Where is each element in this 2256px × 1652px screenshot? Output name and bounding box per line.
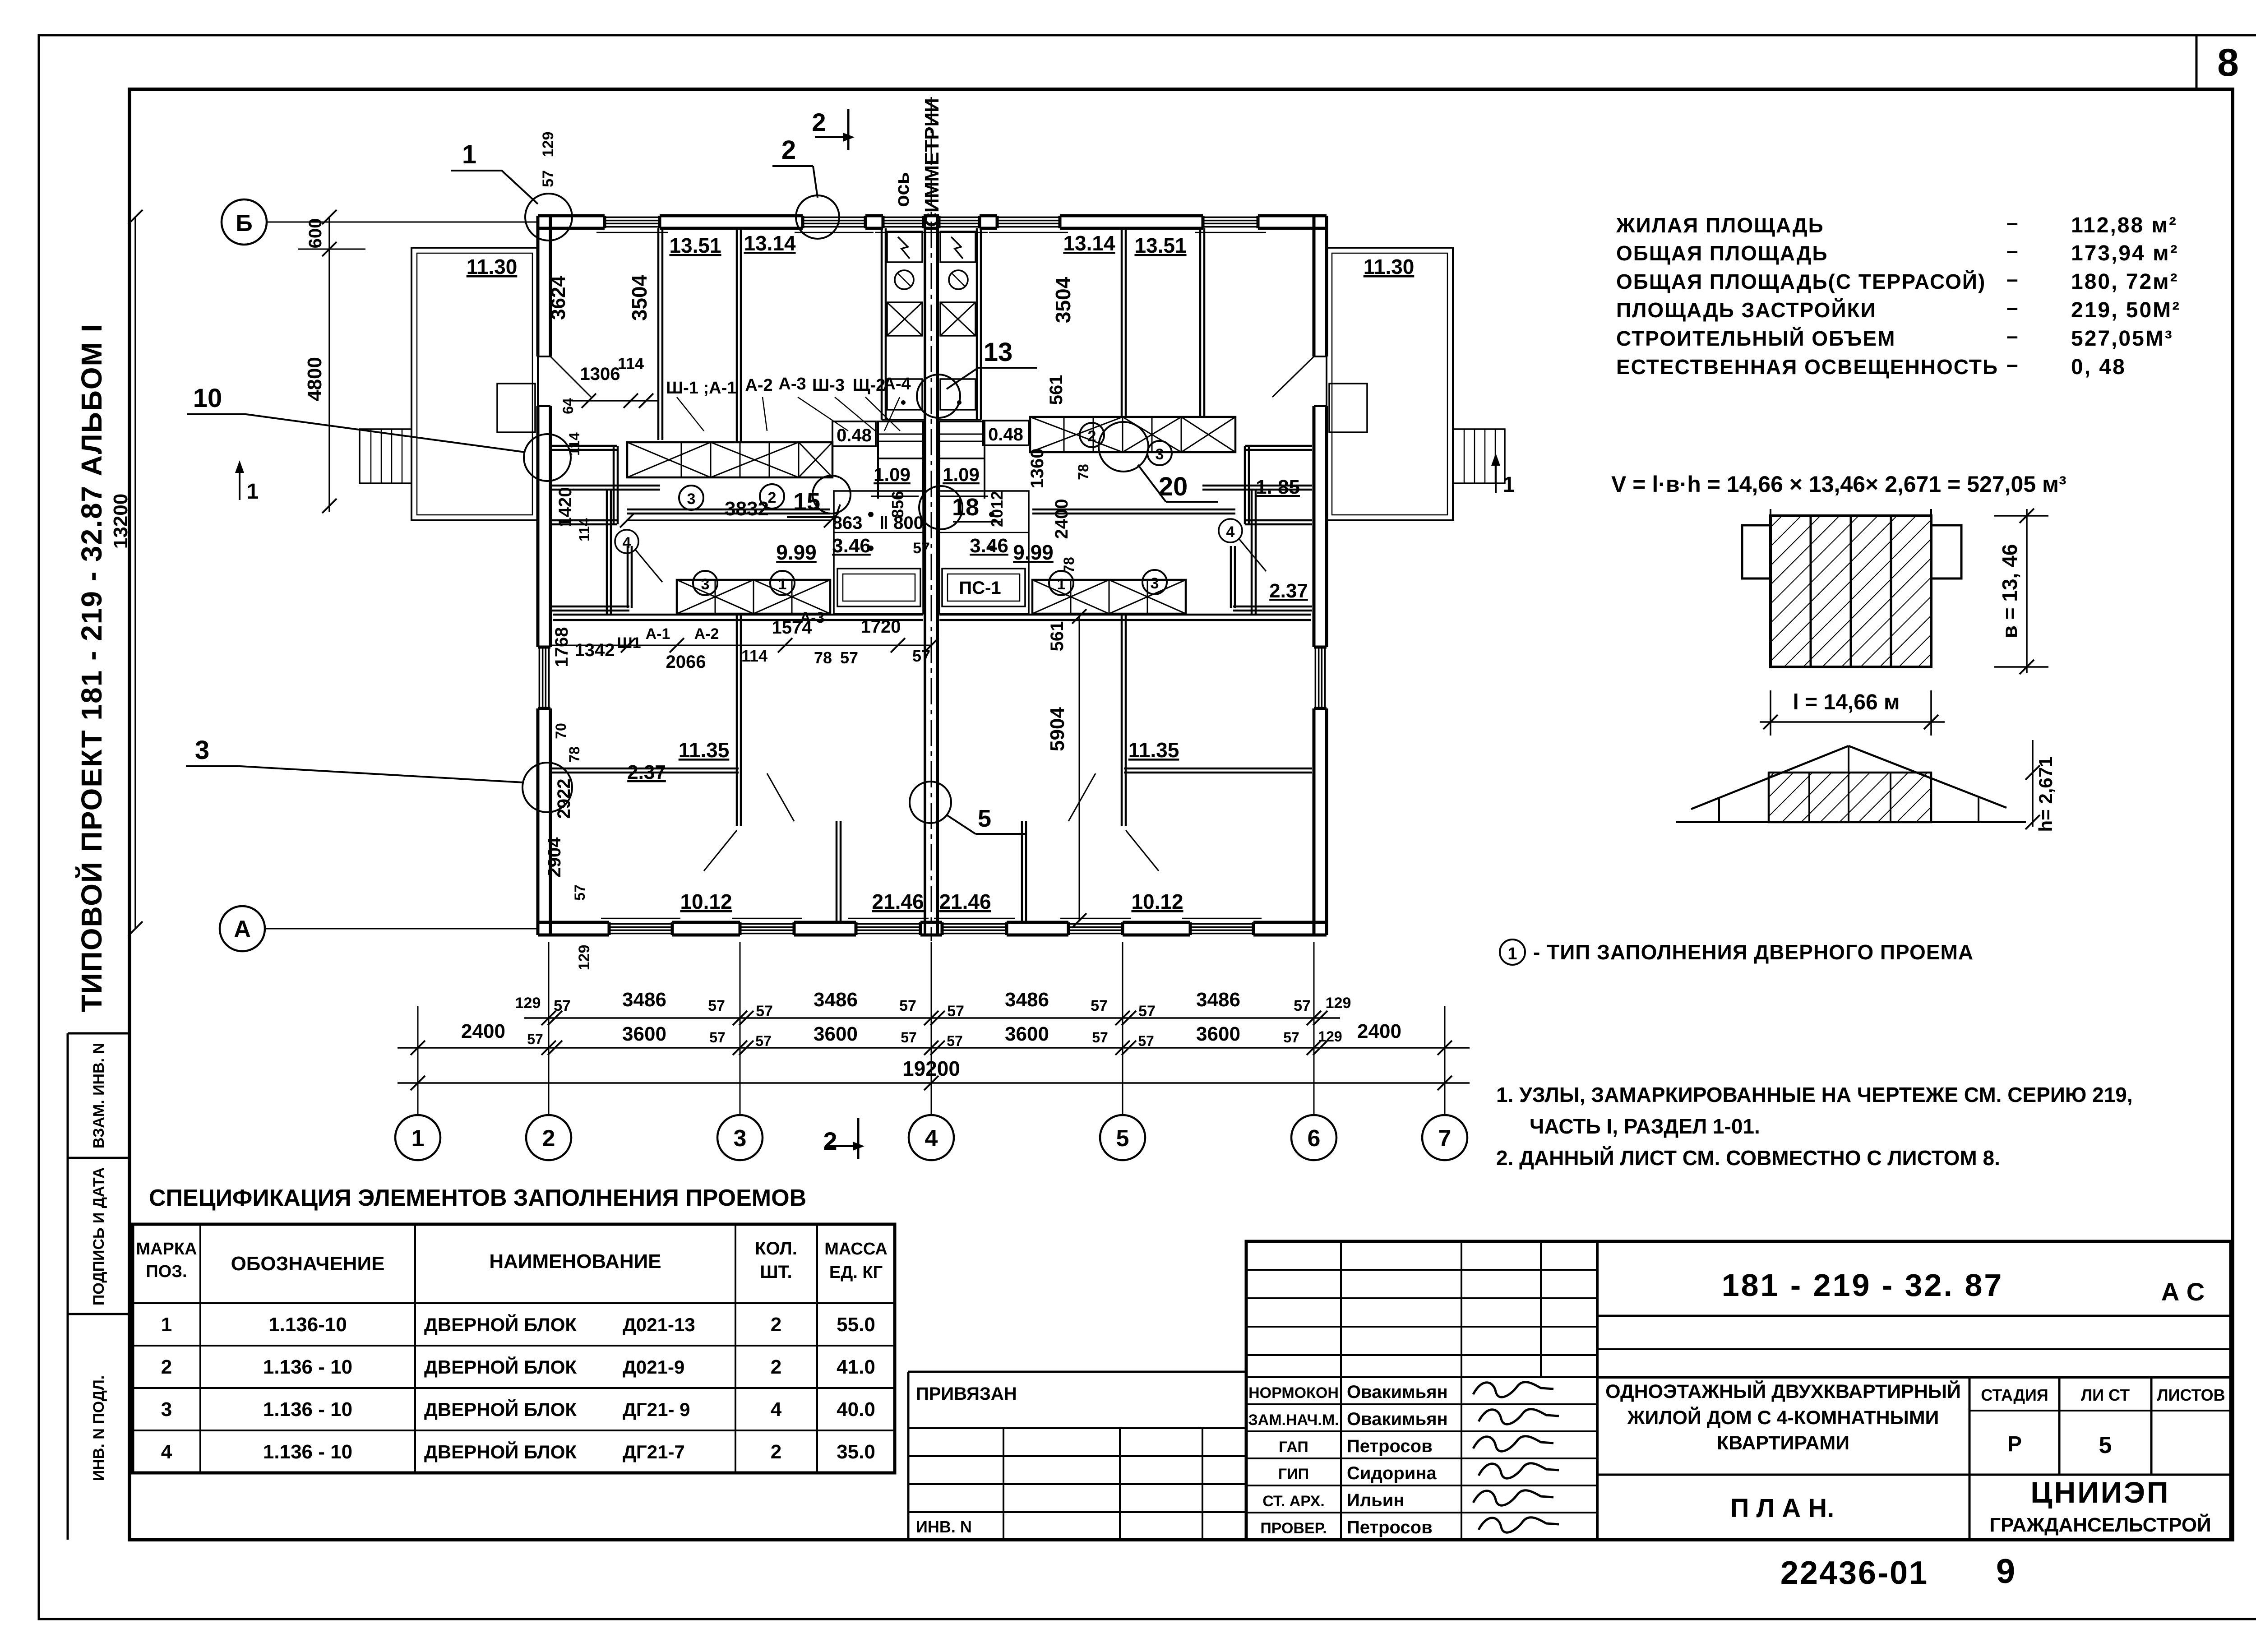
svg-text:0.48: 0.48	[837, 426, 872, 445]
svg-text:3486: 3486	[814, 989, 858, 1011]
title block upper mini grid	[1246, 1269, 1597, 1271]
svg-text:ПОЗ.: ПОЗ.	[146, 1262, 187, 1281]
svg-text:А-2: А-2	[745, 376, 772, 395]
svg-text:ЛИСТОВ: ЛИСТОВ	[2157, 1386, 2225, 1404]
right terrace entrance stair	[1453, 429, 1505, 483]
svg-text:4: 4	[1226, 523, 1235, 541]
svg-text:2: 2	[542, 1125, 555, 1152]
svg-text:57: 57	[840, 648, 858, 667]
svg-text:1.09: 1.09	[874, 464, 911, 485]
svg-text:2: 2	[771, 1314, 781, 1336]
toilet dots right	[989, 512, 994, 517]
svg-text:219, 50М²: 219, 50М²	[2071, 298, 2181, 322]
axis A line	[265, 928, 538, 930]
title block verticals left part	[1596, 1241, 1599, 1540]
party wall on symmetry axis	[924, 216, 926, 935]
svg-text:ЧАСТЬ I, РАЗДЕЛ 1-01.: ЧАСТЬ I, РАЗДЕЛ 1-01.	[1530, 1115, 1760, 1138]
svg-text:l = 14,66 м: l = 14,66 м	[1793, 690, 1900, 714]
stage columns	[1969, 1377, 1971, 1540]
svg-text:ПРИВЯЗАН: ПРИВЯЗАН	[916, 1384, 1017, 1404]
dimension 3832	[627, 519, 831, 521]
bottom exterior wall	[538, 921, 1327, 924]
svg-text:1: 1	[1507, 944, 1517, 963]
top exterior wall	[538, 214, 1327, 217]
svg-text:СТАДИЯ: СТАДИЯ	[1981, 1386, 2048, 1404]
svg-text:ШТ.: ШТ.	[760, 1262, 792, 1282]
detail circle 5 bottom party wall	[910, 782, 951, 823]
svg-text:57: 57	[708, 997, 725, 1014]
lower-right room wall vertical	[1121, 614, 1123, 826]
svg-text:129: 129	[515, 995, 541, 1012]
svg-text:ОДНОЭТАЖНЫЙ ДВУХКВАРТИРНЫЙ: ОДНОЭТАЖНЫЙ ДВУХКВАРТИРНЫЙ	[1605, 1380, 1961, 1402]
svg-text:П Л А Н.: П Л А Н.	[1730, 1494, 1835, 1523]
kitchen core left	[881, 228, 883, 420]
title block horizontal right part	[1597, 1315, 2231, 1317]
svg-text:1: 1	[462, 140, 476, 169]
svg-text:–: –	[2006, 296, 2018, 319]
svg-text:2066: 2066	[666, 652, 706, 672]
signatures	[1473, 1382, 1553, 1397]
svg-text:3: 3	[1156, 446, 1164, 463]
svg-text:57: 57	[756, 1003, 773, 1020]
svg-text:Б: Б	[236, 210, 252, 236]
svg-text:ЦНИИЭП: ЦНИИЭП	[2030, 1476, 2170, 1509]
svg-text:1: 1	[778, 576, 787, 593]
svg-text:4: 4	[925, 1125, 938, 1152]
hatched plan diagram	[1771, 516, 1931, 667]
svg-text:3: 3	[195, 736, 209, 765]
svg-text:57: 57	[1294, 997, 1311, 1014]
svg-text:3600: 3600	[1005, 1023, 1049, 1045]
svg-text:2: 2	[161, 1356, 172, 1378]
svg-text:2012: 2012	[988, 491, 1006, 527]
sink circle left	[895, 270, 914, 289]
svg-text:2: 2	[1088, 428, 1096, 445]
dimension chain row 2	[398, 1047, 1470, 1049]
lower closet band right	[1032, 580, 1186, 614]
partition wall small right room	[1251, 490, 1253, 614]
svg-text:0, 48: 0, 48	[2071, 355, 2126, 379]
closet near detail 4 left	[627, 546, 629, 608]
left wall door opening	[536, 356, 552, 406]
svg-text:1342: 1342	[575, 640, 615, 660]
svg-text:Овакимьян: Овакимьян	[1347, 1409, 1448, 1429]
svg-text:1360: 1360	[1027, 449, 1047, 489]
axis B line	[267, 222, 538, 223]
right terrace door landing	[1329, 384, 1367, 432]
svg-text:129: 129	[576, 945, 593, 971]
svg-text:1. 85: 1. 85	[1256, 476, 1300, 498]
svg-text:ТИПОВОЙ ПРОЕКТ 181 - 219 - 32.: ТИПОВОЙ ПРОЕКТ 181 - 219 - 32.87 АЛЬБОМ …	[75, 324, 108, 1013]
svg-text:600: 600	[305, 218, 325, 249]
svg-text:2.37: 2.37	[1269, 580, 1308, 602]
vent square right	[940, 302, 975, 336]
svg-text:1768: 1768	[552, 627, 572, 667]
svg-text:2: 2	[771, 1441, 781, 1463]
svg-text:57: 57	[912, 647, 930, 665]
axis circles 1-7	[395, 1115, 440, 1160]
shelf cell 1.09 left	[878, 421, 923, 458]
roof elevation diagram	[1676, 821, 2026, 823]
svg-text:3.46: 3.46	[832, 535, 871, 557]
sheet number box top-right	[2196, 35, 2198, 89]
svg-text:41.0: 41.0	[837, 1356, 875, 1378]
svg-text:Д021-13: Д021-13	[623, 1314, 695, 1335]
corridor bottom wall left	[553, 614, 923, 616]
svg-text:10.12: 10.12	[680, 890, 732, 913]
svg-text:3504: 3504	[1051, 277, 1075, 323]
svg-text:ГИП: ГИП	[1278, 1466, 1309, 1483]
svg-text:173,94 м²: 173,94 м²	[2071, 241, 2179, 265]
svg-text:57: 57	[947, 1033, 963, 1049]
svg-text:78: 78	[1061, 557, 1077, 573]
svg-text:13.14: 13.14	[744, 231, 796, 255]
svg-text:129: 129	[1326, 995, 1351, 1012]
dimension 600 and 4800	[328, 217, 330, 512]
svg-text:114: 114	[741, 647, 767, 665]
band circles right	[1080, 423, 1104, 447]
circle 4 right	[1219, 519, 1242, 542]
svg-text:ДВЕРНОЙ БЛОК: ДВЕРНОЙ БЛОК	[424, 1356, 577, 1378]
detail circle 15	[813, 476, 851, 514]
svg-text:ПЛОЩАДЬ ЗАСТРОЙКИ: ПЛОЩАДЬ ЗАСТРОЙКИ	[1616, 298, 1877, 322]
left loggia niche	[550, 445, 617, 447]
section mark 1 right	[1495, 461, 1497, 493]
svg-text:3600: 3600	[622, 1023, 666, 1045]
svg-text:114: 114	[566, 432, 582, 456]
dimension b=13,46	[2026, 509, 2028, 673]
svg-text:ИНВ. N ПОДЛ.: ИНВ. N ПОДЛ.	[90, 1375, 107, 1481]
lower-right room wall horizontal	[1124, 768, 1312, 770]
bottom wall windows	[609, 921, 672, 937]
svg-text:13: 13	[984, 338, 1013, 367]
bathtub left	[837, 569, 920, 606]
lower-left room wall horizontal	[550, 768, 739, 770]
svg-text:ГАП: ГАП	[1279, 1439, 1308, 1456]
partition wall between rooms 13.51 and 13.14	[736, 228, 738, 441]
svg-text:4: 4	[161, 1441, 172, 1463]
right wall window	[1312, 647, 1328, 708]
svg-text:ДВЕРНОЙ БЛОК: ДВЕРНОЙ БЛОК	[424, 1398, 577, 1420]
sink unit PS-1 right	[942, 569, 1025, 606]
closet near detail 4 right	[1230, 546, 1232, 608]
lower-left room wall vertical	[736, 614, 738, 826]
svg-text:ВЗАМ. ИНВ. N: ВЗАМ. ИНВ. N	[90, 1043, 107, 1148]
svg-text:2. ДАННЫЙ ЛИСТ СМ. СОВМЕСТНО: 2. ДАННЫЙ ЛИСТ СМ. СОВМЕСТНО С ЛИСТОМ 8.	[1496, 1146, 2000, 1170]
svg-text:78: 78	[1075, 464, 1091, 480]
svg-text:13.14: 13.14	[1063, 231, 1115, 255]
svg-text:11.35: 11.35	[679, 738, 730, 762]
kitchen sink right	[940, 379, 975, 410]
svg-text:Петросов: Петросов	[1347, 1436, 1433, 1456]
upper closet band right	[1030, 417, 1235, 452]
left exterior wall	[536, 216, 540, 935]
svg-text:3: 3	[687, 491, 696, 508]
svg-text:‖ 800: ‖ 800	[879, 513, 924, 533]
svg-text:3600: 3600	[1196, 1023, 1240, 1045]
partition wall under right strip room	[1202, 485, 1312, 487]
svg-text:Р: Р	[2007, 1432, 2022, 1456]
svg-text:1.09: 1.09	[943, 464, 980, 485]
detail circle 20	[1099, 422, 1148, 472]
svg-text:3: 3	[734, 1125, 747, 1152]
svg-text:1420: 1420	[555, 487, 575, 528]
door swing lines lower rooms	[767, 773, 794, 821]
svg-text:КОЛ.: КОЛ.	[755, 1239, 797, 1259]
svg-text:57: 57	[540, 170, 557, 187]
svg-text:ДГ21-7: ДГ21-7	[623, 1441, 685, 1462]
partition wall right strip	[1199, 228, 1202, 416]
svg-text:Сидорина: Сидорина	[1347, 1463, 1437, 1483]
svg-text:5: 5	[1116, 1125, 1129, 1152]
svg-text:V = l·в·h = 14,66 × 13,46× 2,6: V = l·в·h = 14,66 × 13,46× 2,671 = 527,0…	[1611, 472, 2066, 497]
detail circle 3 left wall	[522, 763, 572, 812]
svg-text:13.51: 13.51	[669, 234, 721, 257]
svg-text:4: 4	[623, 534, 631, 551]
dimension h=2,671	[2032, 740, 2034, 827]
svg-text:1: 1	[161, 1314, 172, 1336]
bottom middle wall left	[836, 821, 838, 922]
svg-text:МАРКА: МАРКА	[136, 1240, 197, 1259]
svg-text:21.46: 21.46	[939, 890, 991, 913]
left frame attribute column	[67, 1033, 69, 1540]
left wing of plan diagram	[1742, 525, 1771, 578]
svg-text:А-1: А-1	[646, 625, 670, 643]
svg-text:1.136 - 10: 1.136 - 10	[263, 1441, 352, 1463]
axis B circle	[222, 199, 267, 245]
svg-text:h= 2,671: h= 2,671	[2035, 757, 2056, 832]
detail circle 1 top-left corner	[525, 194, 572, 241]
svg-text:1.136 - 10: 1.136 - 10	[263, 1398, 352, 1421]
bath walls left	[834, 491, 923, 614]
svg-text:Овакимьян: Овакимьян	[1347, 1382, 1448, 1402]
axis A circle	[220, 906, 265, 951]
svg-text:57: 57	[899, 997, 916, 1014]
svg-text:–: –	[2006, 267, 2018, 291]
svg-text:1. УЗЛЫ, ЗАМАРКИРОВАННЫЕ НА: 1. УЗЛЫ, ЗАМАРКИРОВАННЫЕ НА ЧЕРТЕЖЕ СМ. …	[1496, 1083, 2133, 1106]
svg-text:А: А	[234, 916, 251, 942]
left wall window	[536, 647, 552, 708]
svg-text:А-3: А-3	[800, 609, 825, 626]
svg-text:1306: 1306	[580, 364, 620, 384]
svg-text:3486: 3486	[622, 989, 666, 1011]
svg-text:2400: 2400	[1052, 499, 1072, 539]
partition wall between rooms 13.14 and 13.51 right	[1121, 228, 1123, 416]
shelf cell 1.09 right	[939, 421, 985, 458]
svg-text:13.51: 13.51	[1134, 234, 1186, 257]
svg-text:А-4: А-4	[883, 375, 911, 393]
svg-text:9.99: 9.99	[1013, 541, 1054, 564]
svg-text:3486: 3486	[1005, 989, 1049, 1011]
svg-text:57: 57	[1091, 997, 1108, 1014]
svg-text:57: 57	[901, 1029, 917, 1046]
partition wall small left room	[606, 490, 608, 614]
svg-text:3.46: 3.46	[970, 535, 1008, 557]
svg-text:ОБОЗНАЧЕНИЕ: ОБОЗНАЧЕНИЕ	[231, 1253, 385, 1275]
specification table grid	[133, 1224, 895, 1473]
partition wall under left strip room	[550, 485, 660, 487]
svg-text:35.0: 35.0	[837, 1441, 875, 1463]
svg-text:1: 1	[1503, 473, 1515, 497]
svg-text:40.0: 40.0	[837, 1398, 875, 1421]
svg-text:Ильин: Ильин	[1347, 1490, 1405, 1510]
svg-text:ЛИ СТ: ЛИ СТ	[2081, 1386, 2130, 1404]
svg-text:11.30: 11.30	[1364, 255, 1415, 278]
stove left	[887, 231, 922, 262]
overall height dimension 13200	[134, 217, 136, 929]
svg-text:4: 4	[771, 1398, 782, 1421]
svg-text:ПОДПИСЬ И ДАТА: ПОДПИСЬ И ДАТА	[90, 1167, 107, 1305]
svg-text:13200: 13200	[110, 494, 132, 549]
svg-text:57: 57	[1138, 1003, 1156, 1020]
svg-text:4800: 4800	[304, 357, 326, 401]
svg-text:57: 57	[755, 1033, 772, 1049]
bottom middle wall right	[1021, 821, 1023, 922]
svg-text:2.37: 2.37	[627, 761, 666, 783]
svg-text:2: 2	[768, 489, 777, 506]
svg-text:11.30: 11.30	[467, 255, 518, 278]
svg-text:ДГ21- 9: ДГ21- 9	[623, 1399, 690, 1420]
svg-text:0.48: 0.48	[988, 425, 1023, 444]
svg-text:78: 78	[814, 648, 832, 667]
kitchen core right	[976, 228, 978, 420]
dimension chain row 3 19200	[398, 1082, 1470, 1084]
svg-text:ЕСТЕСТВЕННАЯ ОСВЕЩЕННОСТЬ: ЕСТЕСТВЕННАЯ ОСВЕЩЕННОСТЬ	[1616, 355, 1998, 379]
svg-text:1: 1	[411, 1125, 425, 1152]
svg-text:А-2: А-2	[694, 625, 719, 643]
section mark 1 left	[239, 468, 240, 500]
detail circle 18	[919, 486, 962, 529]
svg-text:5: 5	[978, 805, 991, 832]
svg-text:8: 8	[2217, 41, 2239, 84]
svg-text:57: 57	[1138, 1033, 1154, 1049]
svg-text:2400: 2400	[1357, 1020, 1401, 1042]
svg-text:57: 57	[947, 1003, 964, 1020]
svg-text:Д021-9: Д021-9	[623, 1356, 684, 1378]
svg-text:21.46: 21.46	[872, 890, 924, 913]
right exterior wall	[1313, 216, 1316, 935]
svg-text:ЖИЛАЯ ПЛОЩАДЬ: ЖИЛАЯ ПЛОЩАДЬ	[1616, 213, 1824, 237]
svg-text:СТРОИТЕЛЬНЫЙ ОБЪЕМ: СТРОИТЕЛЬНЫЙ ОБЪЕМ	[1616, 327, 1895, 350]
svg-text:НАИМЕНОВАНИЕ: НАИМЕНОВАНИЕ	[489, 1250, 661, 1273]
title block signatory rows	[1246, 1403, 1597, 1405]
svg-text:2904: 2904	[545, 837, 564, 878]
svg-text:1.136-10: 1.136-10	[268, 1314, 347, 1336]
svg-text:15: 15	[793, 488, 820, 515]
svg-text:57: 57	[709, 1029, 726, 1046]
svg-text:КВАРТИРАМИ: КВАРТИРАМИ	[1717, 1432, 1849, 1454]
svg-text:55.0: 55.0	[837, 1314, 875, 1336]
right wing of plan diagram	[1931, 525, 1961, 578]
axis lines to circles	[417, 1006, 419, 1115]
sink circle right	[949, 270, 968, 289]
svg-text:5904: 5904	[1046, 707, 1068, 751]
svg-text:57: 57	[572, 884, 588, 901]
svg-text:2: 2	[771, 1356, 781, 1378]
left terrace entrance stair	[360, 429, 411, 483]
svg-text:СИММЕТРИИ: СИММЕТРИИ	[921, 98, 943, 227]
door fill type note	[1500, 939, 1525, 965]
svg-text:ОБЩАЯ ПЛОЩАДЬ: ОБЩАЯ ПЛОЩАДЬ	[1616, 241, 1828, 265]
svg-text:1.136 - 10: 1.136 - 10	[263, 1356, 352, 1378]
svg-text:57: 57	[527, 1031, 543, 1047]
lower closet band left	[677, 580, 830, 614]
svg-text:5: 5	[2099, 1432, 2112, 1458]
svg-text:Щ-2: Щ-2	[853, 376, 886, 395]
dimension chain row 1	[524, 1017, 1340, 1019]
svg-text:129: 129	[540, 132, 557, 157]
svg-text:ОБЩАЯ ПЛОЩАДЬ(С ТЕРРАСОЙ): ОБЩАЯ ПЛОЩАДЬ(С ТЕРРАСОЙ)	[1616, 270, 1986, 293]
svg-text:527,05М³: 527,05М³	[2071, 327, 2173, 351]
svg-text:1: 1	[1057, 576, 1066, 593]
svg-text:114: 114	[618, 354, 644, 373]
svg-text:11.35: 11.35	[1128, 738, 1179, 762]
svg-text:Петросов: Петросов	[1347, 1518, 1433, 1537]
svg-text:18: 18	[952, 494, 979, 521]
svg-text:2922: 2922	[554, 779, 574, 819]
svg-text:70: 70	[553, 723, 569, 739]
symmetry axis line	[931, 97, 932, 941]
svg-text:3486: 3486	[1196, 989, 1240, 1011]
lower dim cluster	[550, 645, 931, 646]
corridor wall left	[627, 509, 830, 511]
left terrace	[411, 248, 538, 520]
svg-text:2: 2	[823, 1127, 837, 1155]
svg-text:112,88 м²: 112,88 м²	[2071, 213, 2177, 237]
svg-text:МАССА: МАССА	[824, 1240, 888, 1259]
svg-text:–: –	[2006, 211, 2018, 234]
bath walls right	[939, 491, 1029, 614]
svg-text:3504: 3504	[628, 274, 651, 321]
right wall door opening	[1312, 356, 1328, 406]
corridor bottom wall right	[939, 614, 1311, 616]
svg-text:2: 2	[781, 135, 796, 165]
svg-text:ГРАЖДАНСЕЛЬСТРОЙ: ГРАЖДАНСЕЛЬСТРОЙ	[1989, 1513, 2211, 1536]
dimension l=14,66	[1760, 721, 1945, 723]
svg-text:1: 1	[247, 480, 259, 504]
svg-text:НОРМОКОН: НОРМОКОН	[1248, 1384, 1339, 1402]
right loggia niche 1.85	[1245, 445, 1312, 447]
upper closet band left	[627, 442, 832, 477]
svg-text:3: 3	[701, 576, 710, 593]
toilet dots left	[868, 512, 874, 517]
svg-text:А-3: А-3	[778, 375, 806, 393]
circle 4 left	[615, 530, 638, 553]
svg-text:57: 57	[1092, 1029, 1108, 1046]
svg-text:10.12: 10.12	[1131, 890, 1183, 913]
svg-text:863: 863	[832, 513, 863, 533]
svg-text:в = 13, 46: в = 13, 46	[1998, 544, 2021, 639]
svg-text:57: 57	[1283, 1029, 1299, 1046]
svg-text:ЗАМ.НАЧ.М.: ЗАМ.НАЧ.М.	[1248, 1411, 1339, 1429]
svg-text:561: 561	[1047, 621, 1067, 652]
detail circle 13 kitchen	[917, 375, 960, 418]
box 0.48 left	[832, 421, 876, 446]
detail circle 10 left wall	[524, 434, 571, 481]
stove right	[940, 231, 975, 262]
svg-text:ЕД. КГ: ЕД. КГ	[829, 1263, 883, 1282]
svg-text:СТ. АРХ.: СТ. АРХ.	[1262, 1493, 1325, 1510]
vent square left	[887, 302, 922, 336]
svg-text:ось: ось	[891, 172, 913, 207]
kitchen sink left	[887, 379, 922, 410]
detail circle 2 top wall	[796, 195, 839, 239]
svg-text:3600: 3600	[814, 1023, 858, 1045]
svg-text:7: 7	[1438, 1125, 1452, 1152]
svg-text:ЖИЛОЙ ДОМ С 4-КОМНАТНЫМИ: ЖИЛОЙ ДОМ С 4-КОМНАТНЫМИ	[1627, 1407, 1939, 1429]
svg-text:9.99: 9.99	[776, 541, 817, 564]
svg-text:ДВЕРНОЙ БЛОК: ДВЕРНОЙ БЛОК	[424, 1441, 577, 1462]
